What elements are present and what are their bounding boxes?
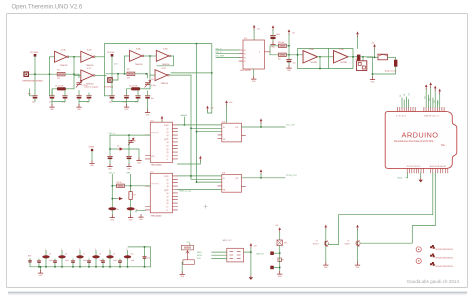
svg-text:2: 2 bbox=[61, 249, 62, 251]
junction bbox=[146, 73, 148, 75]
diode D2 bbox=[118, 197, 123, 200]
ground bbox=[50, 105, 55, 111]
svg-text:L8: L8 bbox=[99, 254, 101, 256]
wire TP down bbox=[91, 151, 93, 161]
svg-text:IC3C: IC3C bbox=[162, 68, 167, 70]
wire link bbox=[112, 198, 117, 200]
IC7 pin stubs left bbox=[145, 186, 150, 210]
svg-text:Q12: Q12 bbox=[164, 139, 167, 141]
IC IC4 box bbox=[150, 122, 172, 162]
wire IC1C in bbox=[74, 74, 81, 76]
ground bbox=[110, 215, 115, 221]
svg-text:47p: 47p bbox=[62, 102, 65, 104]
wire header right bbox=[244, 248, 251, 276]
svg-text:10n: 10n bbox=[151, 98, 154, 100]
net wire OSC_V bbox=[216, 49, 239, 51]
IC8 output wire bbox=[242, 177, 286, 179]
svg-text:L9: L9 bbox=[113, 254, 115, 256]
svg-text:5: 5 bbox=[109, 249, 110, 251]
capacitor C11 bbox=[136, 96, 141, 99]
bottom page shadow bbox=[8, 292, 467, 294]
junction bbox=[88, 266, 90, 268]
junction bbox=[127, 266, 129, 268]
junction bbox=[34, 73, 36, 75]
wire IC7 lower pin bbox=[136, 211, 145, 212]
supply arrow IC4 aux bbox=[199, 156, 202, 161]
wire to pad2 bbox=[274, 267, 280, 269]
top pin stubs left group bbox=[398, 107, 416, 111]
junction bbox=[45, 266, 47, 268]
wire FB out bbox=[388, 56, 396, 58]
wire L2 right bbox=[66, 88, 74, 90]
wire IC1C out bbox=[95, 74, 106, 76]
op-amp IC5B bbox=[334, 51, 349, 63]
op-amp IC5A bbox=[303, 51, 318, 63]
svg-text:MOUNT-PAD-RND3.0: MOUNT-PAD-RND3.0 bbox=[436, 256, 454, 259]
svg-text:10p: 10p bbox=[147, 258, 150, 260]
svg-text:MOUNT-PAD-RND3.0: MOUNT-PAD-RND3.0 bbox=[436, 265, 454, 268]
ground bbox=[287, 66, 292, 72]
svg-text:L2 4.7mH: L2 4.7mH bbox=[55, 85, 64, 87]
svg-text:74HC4060D: 74HC4060D bbox=[151, 216, 163, 218]
antenna pad P1 bbox=[23, 71, 29, 77]
junction bbox=[109, 266, 111, 268]
capacitor C4 bbox=[50, 96, 55, 99]
IC IC8 box bbox=[222, 174, 242, 192]
svg-text:Q6: Q6 bbox=[167, 142, 169, 144]
svg-text:Q4 Q5 Q6: Q4 Q5 Q6 bbox=[151, 132, 158, 134]
svg-text:D13: D13 bbox=[424, 96, 426, 99]
wire arrow down bbox=[374, 49, 376, 58]
svg-text:OSC_V: OSC_V bbox=[109, 133, 116, 135]
IC IC2 box bbox=[243, 40, 265, 69]
op-amp IC1A bbox=[55, 51, 69, 62]
pot wiper arrow bbox=[186, 250, 189, 260]
svg-text:10n: 10n bbox=[86, 102, 89, 104]
capacitor C6 bbox=[87, 96, 92, 99]
svg-text:BC817: BC817 bbox=[313, 244, 319, 246]
ground bbox=[90, 161, 95, 167]
wire A to transistor T1 bbox=[328, 173, 433, 245]
svg-text:10: 10 bbox=[167, 207, 169, 209]
resistor R8 box bbox=[277, 240, 282, 245]
svg-text:PITCH_OUT: PITCH_OUT bbox=[286, 175, 298, 177]
wire IC3A out bbox=[144, 55, 157, 57]
mount hole H1 bbox=[416, 247, 421, 252]
IC6 pin stubs bbox=[218, 135, 246, 138]
supply arrow bbox=[278, 227, 281, 232]
wire pot to ground bbox=[181, 262, 184, 272]
svg-text:ARDUINO: ARDUINO bbox=[402, 131, 439, 140]
svg-text:Q8: Q8 bbox=[167, 200, 169, 202]
inductor L7 bbox=[76, 251, 87, 267]
svg-text:11: 11 bbox=[167, 159, 169, 161]
svg-text:Duemilanove Decimila (And W: Duemilanove Decimila (And W/ R3) bbox=[394, 140, 433, 143]
wire arrow to bus bbox=[208, 110, 212, 113]
junction bbox=[73, 73, 75, 75]
junction bbox=[119, 266, 121, 268]
svg-text:‹AUD_IN: ‹AUD_IN bbox=[256, 252, 264, 255]
wire chain bbox=[279, 232, 281, 272]
junction bbox=[61, 266, 63, 268]
svg-text:IC1C: IC1C bbox=[87, 68, 92, 70]
svg-text:Q12: Q12 bbox=[164, 190, 167, 192]
pad BUTTON2 bbox=[270, 266, 274, 270]
svg-text:1p5: 1p5 bbox=[109, 102, 112, 104]
svg-text:Q2: Q2 bbox=[167, 179, 169, 181]
svg-text:pJTC: pJTC bbox=[114, 64, 119, 66]
trimmer R5 bbox=[128, 138, 134, 145]
wire L4 right bbox=[140, 88, 150, 90]
svg-text:THEREMIN ANTENNA F: THEREMIN ANTENNA F bbox=[22, 80, 44, 83]
svg-text:OUT: OUT bbox=[235, 178, 238, 180]
bus wire bbox=[30, 266, 151, 268]
wire after R1 bbox=[65, 73, 79, 75]
ground T1 bbox=[324, 263, 329, 269]
junction bbox=[319, 68, 321, 70]
ground bbox=[128, 215, 133, 221]
junction bbox=[144, 246, 146, 248]
svg-text:Q9: Q9 bbox=[167, 203, 169, 205]
op-amp IC5A feedback loop bbox=[298, 49, 329, 69]
ground bbox=[127, 164, 132, 170]
top wires left group bbox=[402, 97, 409, 107]
capacitor ladder Cf bbox=[118, 259, 122, 267]
svg-text:IC1B: IC1B bbox=[87, 50, 92, 52]
transistor T1 bbox=[325, 229, 327, 262]
svg-text:A0A1A2A3A4A5: A0A1A2A3A4A5 bbox=[430, 165, 447, 168]
wire IC5B out bbox=[348, 56, 373, 58]
svg-text:R6 1k: R6 1k bbox=[117, 182, 122, 184]
antenna pad P2 bbox=[107, 77, 113, 83]
svg-text:VPOSC: VPOSC bbox=[107, 52, 115, 54]
wire IC7 row2 bbox=[191, 178, 222, 180]
svg-text:4-20p: 4-20p bbox=[151, 85, 156, 87]
svg-text:OUT: OUT bbox=[235, 127, 238, 129]
svg-text:74HC4053D: 74HC4053D bbox=[240, 70, 252, 72]
supply +5V arrow bbox=[373, 44, 376, 49]
svg-text:L10: L10 bbox=[131, 254, 134, 256]
svg-text:10u: 10u bbox=[116, 209, 119, 211]
junction bbox=[109, 148, 111, 150]
trimmer cap C8 bbox=[145, 80, 151, 87]
supply arrow mid bbox=[206, 106, 209, 111]
svg-text:3: 3 bbox=[79, 249, 80, 251]
svg-text:1: 1 bbox=[45, 249, 46, 251]
svg-text:MOSI: MOSI bbox=[197, 255, 202, 257]
ferrite bead FB1 bbox=[378, 54, 388, 60]
wire L2 left bbox=[52, 89, 57, 96]
ground bbox=[124, 105, 129, 111]
top wires right group bbox=[426, 87, 440, 108]
capacitor C3 bbox=[33, 96, 38, 99]
supply arrow IC4 bbox=[161, 116, 164, 121]
wire IC4 pin1 to IC6 bbox=[178, 124, 222, 126]
input cluster IC4: wire top bbox=[110, 134, 150, 136]
junction bbox=[288, 45, 290, 47]
IC4 inner pin numbers bbox=[167, 125, 169, 161]
junction bbox=[54, 266, 56, 268]
capacitor C9 bbox=[110, 96, 115, 99]
capacitor C19 electrolytic bbox=[394, 60, 397, 67]
wire IC7 row3 bbox=[197, 181, 222, 183]
board outline bbox=[385, 111, 457, 168]
wire arrow to IC6 bbox=[226, 105, 228, 123]
svg-text:R5: R5 bbox=[134, 141, 136, 143]
supply arrow T2 bbox=[356, 225, 359, 230]
wire IC3C in bbox=[150, 74, 155, 76]
wire main row bbox=[29, 73, 57, 75]
capacitor C10 bbox=[124, 96, 129, 99]
wire IC4 row3 bbox=[197, 131, 222, 133]
svg-text:74HC4060D: 74HC4060D bbox=[151, 165, 163, 167]
wire stage link bbox=[320, 56, 334, 58]
inductor L2 bbox=[57, 87, 66, 90]
resistor R4 bbox=[279, 53, 287, 56]
svg-text:8765432: 8765432 bbox=[396, 116, 406, 118]
svg-text:6: 6 bbox=[127, 249, 128, 251]
svg-text:1p5: 1p5 bbox=[32, 102, 35, 104]
mount hole H2 bbox=[416, 258, 421, 263]
wire feedback column bbox=[73, 57, 75, 89]
wire top bbox=[189, 244, 191, 246]
svg-text:R4: R4 bbox=[278, 58, 280, 60]
ground bbox=[77, 105, 82, 111]
tantalum cap C13 bbox=[272, 25, 275, 30]
wire feedback column bbox=[149, 56, 151, 89]
svg-text:X1: X1 bbox=[244, 54, 246, 56]
net wire OSC_P bbox=[216, 53, 239, 55]
wire top loop volume signal bbox=[105, 44, 212, 113]
svg-text:X0: X0 bbox=[244, 50, 246, 52]
svg-text:RST3V35VGV: RST3V35VGV bbox=[407, 166, 421, 168]
svg-text:4: 4 bbox=[95, 249, 96, 251]
junction bbox=[190, 128, 192, 130]
earth ground header bbox=[249, 276, 253, 280]
ground chain bbox=[277, 272, 282, 278]
junction bbox=[112, 185, 114, 187]
left cap column bbox=[29, 259, 31, 267]
wire main row bbox=[106, 73, 127, 75]
svg-text:VOL_OUT: VOL_OUT bbox=[286, 124, 296, 126]
svg-text:74HC04: 74HC04 bbox=[161, 83, 169, 85]
svg-text:R3 10k: R3 10k bbox=[278, 42, 284, 44]
op-amp IC1B bbox=[81, 51, 95, 62]
svg-text:VPOSM: VPOSM bbox=[30, 52, 38, 54]
transistor T2 bbox=[357, 229, 359, 262]
header pins inside bbox=[230, 251, 240, 258]
wire supply to pad bbox=[111, 57, 113, 77]
supply arrows on top wires bbox=[425, 84, 428, 89]
supply +5V arrow bbox=[253, 25, 256, 30]
junction bbox=[196, 181, 198, 183]
junction bbox=[130, 185, 132, 187]
junction bbox=[72, 266, 74, 268]
svg-text:$AVR_SPI: $AVR_SPI bbox=[223, 239, 232, 242]
junction bbox=[149, 55, 151, 57]
junction bbox=[95, 266, 97, 268]
capacitor ladder Cd bbox=[87, 259, 91, 267]
wire output to RC bbox=[270, 46, 279, 55]
svg-text:L5: L5 bbox=[49, 254, 51, 256]
svg-text:D3: D3 bbox=[409, 93, 411, 95]
junction bbox=[112, 198, 114, 200]
svg-text:T2: T2 bbox=[347, 241, 349, 243]
ground bbox=[251, 77, 256, 83]
trimmer cap C2 bbox=[76, 80, 82, 87]
svg-text:Q4: Q4 bbox=[167, 186, 169, 188]
capacitor C16 bbox=[127, 156, 132, 159]
svg-text:GAREF131211: GAREF131211 bbox=[424, 115, 439, 118]
supply arrow header bbox=[250, 243, 253, 248]
junction bbox=[279, 252, 281, 254]
junction bbox=[79, 266, 81, 268]
supply +5V arrow bbox=[356, 31, 359, 36]
junction bbox=[374, 57, 376, 59]
wire aux bbox=[178, 161, 201, 164]
top pin stubs right group bbox=[424, 107, 444, 111]
inductor L9 bbox=[106, 251, 117, 267]
wire trimmer column bbox=[147, 74, 149, 78]
capacitor ladder Cb bbox=[53, 259, 57, 267]
wire input column bbox=[124, 56, 126, 74]
svg-text:IC3A: IC3A bbox=[136, 48, 141, 51]
op-amp IC5B feedback loop bbox=[329, 49, 353, 69]
mount pad MP1 bbox=[430, 245, 435, 249]
mount pad MP2 bbox=[430, 254, 435, 258]
wire input stub IC1A bbox=[50, 56, 55, 58]
net wire OSC_REF bbox=[216, 56, 239, 58]
svg-text:Audio out line: Audio out line bbox=[385, 70, 396, 73]
svg-text:IC3B: IC3B bbox=[163, 49, 168, 51]
svg-text:L4 4.7mH: L4 4.7mH bbox=[129, 85, 138, 87]
svg-text:GaudiLabs gaudi.ch 2014: GaudiLabs gaudi.ch 2014 bbox=[407, 279, 460, 284]
svg-text:L6: L6 bbox=[65, 254, 67, 256]
svg-text:IC5A: IC5A bbox=[309, 48, 314, 51]
svg-text:Y1: Y1 bbox=[244, 61, 246, 63]
pot R10 upper box bbox=[181, 245, 193, 250]
svg-text:T1: T1 bbox=[316, 241, 318, 243]
supply arrow T1 bbox=[325, 225, 328, 230]
svg-text:D4: D4 bbox=[404, 94, 406, 96]
IC2 output pin bbox=[265, 51, 271, 53]
wire link row bbox=[110, 149, 139, 158]
svg-text:OSC_P: OSC_P bbox=[215, 52, 222, 54]
op-amp IC3B bbox=[156, 50, 170, 61]
junction bbox=[297, 54, 299, 56]
wire bus pitch vertical bbox=[190, 75, 192, 178]
wire branch columns bbox=[112, 174, 130, 207]
right end cap C20 bbox=[143, 255, 150, 267]
wire to pad bbox=[274, 252, 280, 254]
capacitor C12 bbox=[145, 96, 150, 99]
svg-text:IC5B: IC5B bbox=[339, 49, 344, 51]
diode D1 bbox=[118, 148, 123, 151]
junction bbox=[190, 175, 192, 177]
wires caps to ground bbox=[112, 99, 148, 110]
svg-text:Q9: Q9 bbox=[167, 152, 169, 154]
svg-text:Q7: Q7 bbox=[167, 145, 169, 147]
svg-text:power out (gate): power out (gate) bbox=[85, 86, 99, 89]
junction bbox=[184, 124, 186, 126]
ground ladder bbox=[40, 267, 42, 271]
wire IC1B out bbox=[95, 56, 104, 58]
svg-text:FB: FB bbox=[223, 139, 225, 141]
junction bbox=[362, 56, 364, 58]
svg-text:Q4 Q5 Q6: Q4 Q5 Q6 bbox=[151, 183, 158, 185]
capacitor C15 bbox=[108, 156, 113, 159]
svg-text:VAGND: VAGND bbox=[181, 114, 188, 117]
resistor R6 bbox=[112, 185, 116, 187]
IC4 pin stubs right bbox=[173, 125, 178, 159]
op-amp IC3C bbox=[155, 70, 169, 81]
capacitor C5 bbox=[63, 96, 68, 99]
inductor L6 bbox=[58, 251, 69, 267]
wire IC3C out bbox=[169, 73, 211, 75]
svg-text:RST: RST bbox=[151, 156, 154, 158]
svg-text:Y0: Y0 bbox=[244, 57, 246, 59]
net wires MISO MOSI SCK bbox=[212, 252, 227, 258]
svg-text:1M: 1M bbox=[57, 78, 60, 80]
svg-text:47p: 47p bbox=[135, 102, 138, 104]
wire to op-amp bbox=[286, 54, 303, 56]
svg-text:100n: 100n bbox=[276, 34, 280, 36]
junction bbox=[144, 266, 146, 268]
junction bbox=[372, 73, 374, 75]
svg-text:TL072D: TL072D bbox=[340, 62, 348, 64]
ground D-branch bbox=[137, 158, 142, 164]
svg-text:74HC04: 74HC04 bbox=[86, 83, 94, 85]
junction bbox=[319, 56, 321, 58]
op-amp IC1C bbox=[81, 70, 95, 81]
svg-text:D11: D11 bbox=[433, 100, 435, 103]
wire after R2 bbox=[135, 73, 148, 75]
wire supply column to loop bbox=[357, 36, 359, 49]
resistor R3 bbox=[279, 44, 287, 47]
wire jack out row bbox=[367, 56, 378, 58]
capacitor ladder Ce bbox=[101, 259, 105, 267]
junction bbox=[49, 73, 51, 75]
resistor R7 vertical bbox=[129, 192, 132, 200]
supply pin P+ bbox=[111, 54, 114, 57]
svg-text:Q3: Q3 bbox=[167, 132, 169, 134]
wire supply column bbox=[288, 34, 290, 46]
inductor L10 bbox=[124, 251, 135, 267]
pad BUTTON1 bbox=[270, 252, 274, 256]
resistor R2 bbox=[127, 72, 135, 75]
ground T2 bbox=[355, 263, 360, 269]
svg-text:11: 11 bbox=[167, 210, 169, 212]
pot R10 lower box bbox=[183, 260, 194, 265]
bottom ground arrow bbox=[420, 173, 422, 178]
origin cross bbox=[204, 205, 208, 209]
wire IC1A out bbox=[69, 56, 81, 58]
wire ladder top right bbox=[128, 247, 151, 267]
wire bottom row bbox=[373, 57, 396, 77]
junction bbox=[352, 56, 354, 58]
wire caps to ground bbox=[35, 99, 89, 105]
svg-text:10n: 10n bbox=[293, 63, 296, 65]
junction bbox=[38, 266, 40, 268]
svg-text:1M: 1M bbox=[127, 77, 130, 79]
wire B to transistor T2 bbox=[360, 173, 436, 243]
wire L4 left bbox=[127, 89, 132, 96]
wire IC7 pin1 row bbox=[178, 175, 222, 177]
junction bbox=[73, 56, 75, 58]
wire left rail to caps bbox=[105, 95, 113, 97]
wire pad to main row bbox=[113, 74, 118, 80]
junction bbox=[260, 177, 262, 179]
